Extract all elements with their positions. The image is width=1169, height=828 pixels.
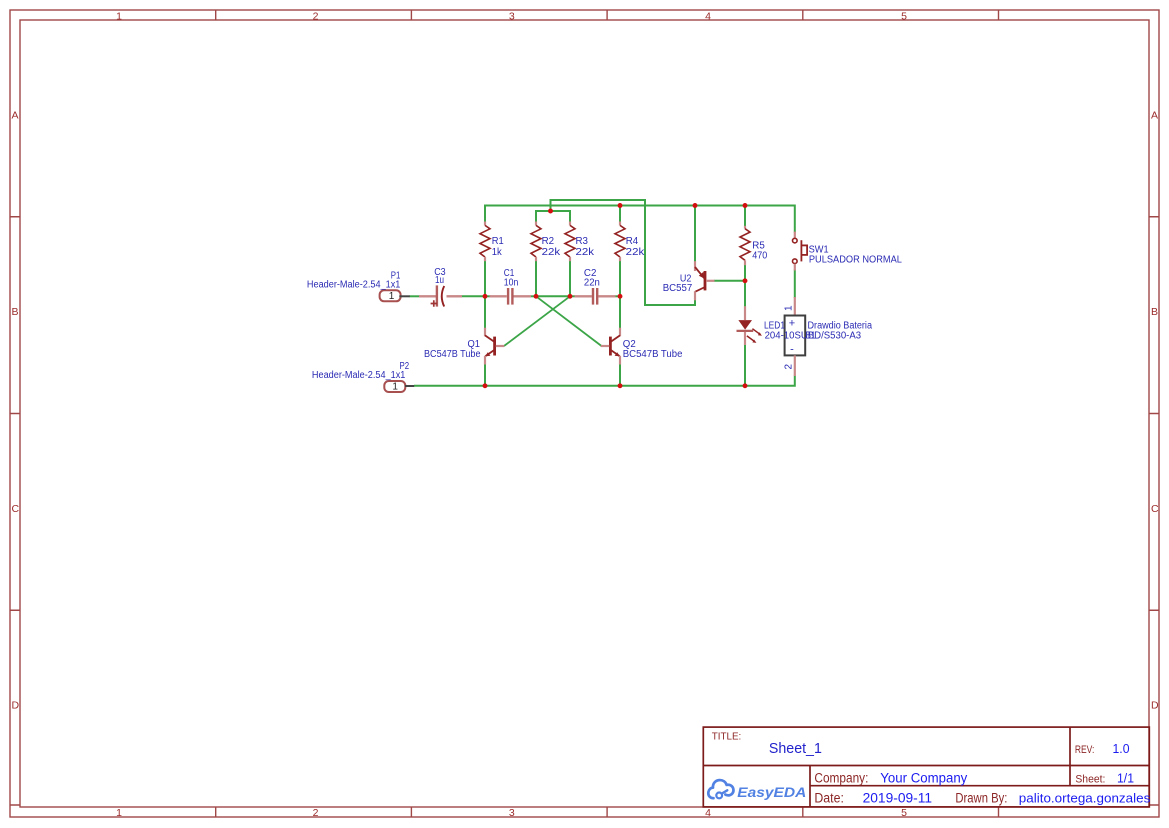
svg-text:palito.ortega.gonzales: palito.ortega.gonzales <box>1019 791 1151 806</box>
wire U2 base to R5 node <box>714 280 745 282</box>
transistor Q1 BC547B <box>485 328 504 365</box>
svg-text:R2: R2 <box>542 236 555 247</box>
wire SW1 bottom to battery pin 1 <box>794 270 796 299</box>
svg-text:1k: 1k <box>492 247 503 258</box>
junction Q2 emitter ground <box>618 383 623 388</box>
wire U2 emitter from VCC rail <box>694 206 696 263</box>
svg-text:LED1: LED1 <box>764 320 785 331</box>
wire R2/R3 top bar <box>536 211 570 223</box>
frame row letters left <box>12 110 20 712</box>
svg-text:22k: 22k <box>626 247 646 258</box>
header P1 <box>380 290 410 302</box>
svg-text:1u: 1u <box>435 275 444 286</box>
svg-text:Drawdio Bateria: Drawdio Bateria <box>808 321 873 332</box>
capacitor C2 <box>575 288 616 305</box>
svg-text:C: C <box>12 503 20 515</box>
svg-text:BC557: BC557 <box>663 283 693 294</box>
svg-text:22k: 22k <box>542 247 562 258</box>
capacitor C1 <box>490 288 532 305</box>
svg-text:Your Company: Your Company <box>880 770 967 785</box>
junction node A <box>483 294 488 299</box>
svg-text:D: D <box>1151 700 1159 712</box>
wire R4 top <box>619 206 621 223</box>
title block borders <box>703 727 1149 807</box>
svg-text:470: 470 <box>752 250 767 261</box>
svg-text:R1: R1 <box>492 236 504 247</box>
wire Q1 emitter to ground rail <box>484 364 486 386</box>
svg-text:Header-Male-2.54_1x1: Header-Male-2.54_1x1 <box>312 370 406 381</box>
frame row ticks right <box>1149 217 1159 805</box>
svg-text:3: 3 <box>509 807 515 819</box>
wire R2 bottom <box>535 261 537 297</box>
push button SW1 <box>793 232 808 271</box>
wire Q2 emitter to ground rail <box>619 364 621 386</box>
svg-text:Date:: Date: <box>814 791 844 806</box>
svg-text:TITLE:: TITLE: <box>712 731 742 743</box>
svg-text:R4: R4 <box>626 236 639 247</box>
junction R4 top <box>618 203 623 208</box>
wire cross-couple node B to Q2 base <box>536 296 602 346</box>
LED LED1 <box>737 306 762 345</box>
junction R5 top <box>743 203 748 208</box>
svg-text:EasyEDA: EasyEDA <box>737 785 806 800</box>
svg-text:22n: 22n <box>584 277 600 288</box>
wire base node to LED top <box>744 281 746 307</box>
polarized capacitor C3 <box>419 285 462 306</box>
svg-text:C: C <box>1151 503 1159 515</box>
wire node C to C2 left <box>570 295 575 297</box>
svg-text:BC547B Tube: BC547B Tube <box>424 349 481 360</box>
wire R5 top <box>744 206 746 227</box>
wire R5 bottom to base node <box>744 265 746 281</box>
svg-text:1: 1 <box>392 382 398 393</box>
battery B1 Drawdio Bateria <box>785 297 806 376</box>
wire bottom rail from P2 to battery <box>414 376 795 386</box>
EasyEDA logo cloud <box>708 780 733 798</box>
junction node B <box>534 294 539 299</box>
resistor R1 <box>480 222 490 262</box>
junction node D <box>618 294 623 299</box>
wire C3 to node A <box>462 295 486 297</box>
svg-text:R3: R3 <box>576 236 589 247</box>
wire C2 right to node D <box>615 295 620 297</box>
resistor R5 <box>740 226 750 265</box>
junction LED ground <box>743 383 748 388</box>
svg-text:5: 5 <box>901 11 907 23</box>
svg-text:D: D <box>12 700 20 712</box>
svg-text:4: 4 <box>705 807 711 819</box>
junction R2/R3 feed node <box>548 209 553 214</box>
svg-text:1/1: 1/1 <box>1117 770 1134 785</box>
svg-text:3: 3 <box>509 11 515 23</box>
svg-text:22k: 22k <box>576 247 596 258</box>
junction node C <box>568 294 573 299</box>
frame row letters right <box>1151 110 1159 712</box>
svg-text:B: B <box>12 306 19 318</box>
svg-text:Company:: Company: <box>814 770 868 785</box>
wire P1 to C3 <box>410 295 420 297</box>
svg-text:1: 1 <box>116 11 122 23</box>
frame column numbers bottom <box>116 807 907 819</box>
svg-text:2: 2 <box>784 364 795 370</box>
svg-text:+: + <box>789 318 795 330</box>
svg-text:B: B <box>1151 306 1158 318</box>
transistor Q2 BC547B <box>601 328 620 365</box>
svg-text:Sheet:: Sheet: <box>1075 773 1105 785</box>
svg-text:REV:: REV: <box>1075 744 1095 756</box>
frame column numbers top <box>116 11 907 23</box>
wire LED bottom to ground rail <box>744 345 746 386</box>
wire upper loop from R2/R3 node to U2 collector bracket <box>551 200 696 305</box>
svg-text:4: 4 <box>705 11 711 23</box>
header P2 <box>384 381 414 393</box>
svg-text:A: A <box>1151 110 1158 122</box>
wire node B to node C mid segment <box>536 295 570 297</box>
junction Q1 emitter ground <box>483 383 488 388</box>
wire R4 bottom <box>619 261 621 297</box>
frame column ticks top <box>216 10 999 20</box>
svg-text:Drawn By:: Drawn By: <box>955 791 1007 806</box>
wire R3 bottom <box>569 261 571 297</box>
svg-text:Sheet_1: Sheet_1 <box>769 741 822 757</box>
wire R1 bottom <box>484 261 486 297</box>
svg-text:2: 2 <box>313 11 319 23</box>
resistor R3 <box>565 222 575 262</box>
svg-text:PULSADOR NORMAL: PULSADOR NORMAL <box>809 255 902 266</box>
svg-text:5: 5 <box>901 807 907 819</box>
svg-text:1: 1 <box>784 305 795 311</box>
svg-text:-: - <box>790 344 794 356</box>
svg-text:A: A <box>12 110 19 122</box>
wire cross-couple node C to Q1 base <box>504 296 570 346</box>
svg-text:1.0: 1.0 <box>1113 741 1130 756</box>
junction R5 bottom / U2 base <box>743 278 748 283</box>
svg-text:10n: 10n <box>504 277 519 288</box>
svg-text:BC547B Tube: BC547B Tube <box>623 349 683 360</box>
svg-text:2019-09-11: 2019-09-11 <box>863 791 933 806</box>
svg-text:2: 2 <box>313 807 319 819</box>
svg-text:Q1: Q1 <box>468 339 481 350</box>
wire Q2 collector <box>619 296 621 328</box>
resistor R2 <box>531 222 541 262</box>
wire C1 right to node B <box>531 295 537 297</box>
svg-text:B1: B1 <box>806 331 816 342</box>
junction U2 emitter <box>693 203 698 208</box>
wire VCC top rail with R1 drop and right drop to SW1 <box>485 206 795 233</box>
wire Q1 collector <box>484 296 486 328</box>
resistor R4 <box>615 222 625 262</box>
frame row ticks left <box>10 217 20 805</box>
frame column ticks bottom <box>216 807 999 817</box>
svg-text:Header-Male-2.54_1x1: Header-Male-2.54_1x1 <box>307 279 401 290</box>
transistor U2 BC557 PNP <box>695 261 715 300</box>
wire node A to C1 left <box>485 295 491 297</box>
svg-text:1: 1 <box>116 807 122 819</box>
junction dots <box>483 203 748 388</box>
svg-text:1: 1 <box>389 291 395 302</box>
